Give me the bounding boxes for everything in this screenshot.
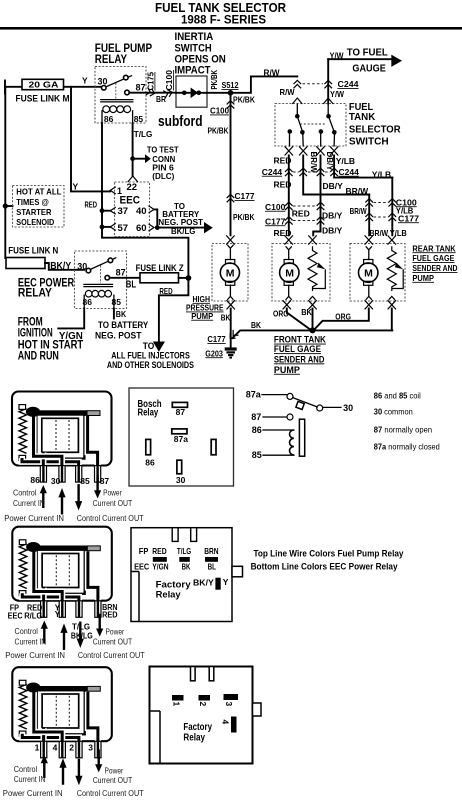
svg-text:M: M xyxy=(226,268,235,280)
svg-text:Power Current IN: Power Current IN xyxy=(5,651,65,660)
switch inertia switch box xyxy=(176,76,207,107)
wire fuse link Z out xyxy=(179,277,189,279)
wire relay 85 T/LG to EEC pin22 xyxy=(132,123,134,176)
svg-text:85: 85 xyxy=(80,476,90,486)
dashes C100/C177 right rows xyxy=(374,203,389,218)
svg-text:STARTER: STARTER xyxy=(16,207,51,217)
svg-text:EEC: EEC xyxy=(8,611,23,620)
svg-text:86: 86 xyxy=(145,457,155,467)
svg-text:C175: C175 xyxy=(147,71,156,90)
svg-text:37: 37 xyxy=(118,206,129,217)
svg-text:57: 57 xyxy=(118,223,129,234)
svg-text:M: M xyxy=(364,268,373,280)
node splice pin57 xyxy=(100,225,105,230)
switch bottom pin bowties xyxy=(285,146,293,155)
wire BK horizontal main ground bus xyxy=(232,330,392,338)
heading INERTIA SWITCH OPENS ON IMPACT xyxy=(175,31,226,76)
wire Y/GN from ignition to relay 86 xyxy=(58,309,84,329)
wire BK front module right pin to splice xyxy=(312,309,314,329)
connector C177 mark at ground junction xyxy=(227,330,238,341)
switch inertia contacts xyxy=(176,88,207,99)
svg-text:Power Current IN: Power Current IN xyxy=(4,514,64,523)
svg-text:SELECTOR: SELECTOR xyxy=(349,124,401,136)
cutaway2 captions xyxy=(5,627,145,660)
svg-text:Y: Y xyxy=(55,610,61,619)
legend relay pin functions xyxy=(374,392,440,452)
svg-text:Current OUT: Current OUT xyxy=(93,776,133,785)
svg-text:87: 87 xyxy=(251,412,261,422)
svg-text:87 normally open: 87 normally open xyxy=(374,425,432,434)
heading HIGH PRESSURE PUMP xyxy=(186,294,224,321)
svg-text:G203: G203 xyxy=(205,348,223,358)
svg-text:85: 85 xyxy=(252,450,262,460)
wire inertia out to R/W corner xyxy=(207,76,297,92)
svg-text:86: 86 xyxy=(104,114,114,124)
svg-text:PUMP: PUMP xyxy=(191,311,213,321)
svg-text:TANK: TANK xyxy=(349,111,376,123)
svg-text:Control: Control xyxy=(13,489,37,498)
svg-text:BR/W: BR/W xyxy=(309,152,318,174)
pin bowties front module bottom xyxy=(283,300,291,309)
svg-text:Y: Y xyxy=(223,577,229,587)
pin bowties front module top xyxy=(285,235,293,244)
svg-text:30: 30 xyxy=(98,76,108,86)
relay schematic symbol 87a/30/87/86/85 xyxy=(246,389,353,460)
pin bowties rear module top xyxy=(365,235,373,244)
connector C244 row marks xyxy=(285,168,293,176)
svg-text:HOT AT ALL: HOT AT ALL xyxy=(16,187,61,197)
cutaway2 wire color labels xyxy=(8,603,118,641)
front module motor xyxy=(280,246,299,299)
svg-text:DB/Y: DB/Y xyxy=(322,210,343,220)
svg-text:C100: C100 xyxy=(265,202,286,212)
svg-text:1: 1 xyxy=(172,702,182,707)
pin bowtie HP pump bottom xyxy=(227,300,235,309)
node splice pin37 xyxy=(100,208,105,213)
wire relay 86 down to EEC 37/57 and fuse link Z junction xyxy=(102,123,188,278)
svg-text:R/W: R/W xyxy=(280,87,296,97)
svg-text:86: 86 xyxy=(252,425,262,435)
svg-text:85: 85 xyxy=(112,297,122,307)
svg-text:FUEL GAGE: FUEL GAGE xyxy=(412,253,454,263)
svg-text:R/LG: R/LG xyxy=(24,611,42,620)
svg-text:RED: RED xyxy=(274,179,292,189)
svg-text:BR/W: BR/W xyxy=(346,186,370,196)
fuse FUSE LINK Z xyxy=(136,263,184,283)
svg-text:30: 30 xyxy=(176,475,186,485)
svg-text:DB/Y: DB/Y xyxy=(322,226,343,236)
svg-text:22: 22 xyxy=(127,182,138,193)
svg-text:GAUGE: GAUGE xyxy=(352,62,385,74)
rear module motor xyxy=(359,246,378,299)
label TO ALL FUEL INJECTORS AND OTHER SOLENOIDS xyxy=(107,341,194,370)
connector C244 row dashes xyxy=(293,171,330,173)
wire BR/W column xyxy=(303,156,369,195)
box HOT AT ALL TIMES @ STARTER SOLENOID xyxy=(13,186,65,228)
svg-text:RELAY: RELAY xyxy=(18,288,52,300)
svg-text:Y/W: Y/W xyxy=(330,89,345,99)
relay fuel pump relay internals xyxy=(98,75,146,124)
cutaway1 captions xyxy=(4,489,144,523)
svg-text:Current IN: Current IN xyxy=(15,637,47,646)
svg-text:86: 86 xyxy=(83,297,93,307)
pin hat EEC 22 xyxy=(128,176,138,182)
svg-text:Current OUT: Current OUT xyxy=(93,637,133,646)
svg-text:Y/W: Y/W xyxy=(330,51,344,60)
svg-text:SWITCH: SWITCH xyxy=(349,136,389,148)
module EEC box xyxy=(115,182,150,237)
node S512 splice xyxy=(228,90,234,96)
svg-text:BK: BK xyxy=(301,307,312,317)
label TO BATTERY NEG. POST BK/LG xyxy=(158,201,204,236)
svg-text:Power: Power xyxy=(106,628,125,637)
svg-text:FRONT TANK: FRONT TANK xyxy=(274,335,326,345)
wire Y/LB down right side xyxy=(391,178,393,236)
box Bosch relay pinout xyxy=(129,388,234,486)
box factory relay (bottom) xyxy=(150,667,262,764)
svg-text:Relay: Relay xyxy=(183,732,205,743)
svg-text:IMPACT: IMPACT xyxy=(175,64,211,76)
heading FRONT TANK FUEL GAGE SENDER AND PUMP xyxy=(274,335,326,375)
cutaway3 current arrows xyxy=(41,755,48,778)
svg-text:40: 40 xyxy=(136,206,147,217)
svg-text:BK: BK xyxy=(182,561,191,571)
cutaway1 current arrows xyxy=(40,485,47,508)
svg-text:C177: C177 xyxy=(398,213,419,223)
wire rear module right pin down to bus xyxy=(391,309,393,331)
svg-text:PUMP: PUMP xyxy=(412,273,434,283)
wire 87 BL to fuse link Z xyxy=(110,277,140,279)
svg-text:3: 3 xyxy=(224,702,234,707)
relay cutaway 3 (numbered pins) xyxy=(12,667,112,758)
svg-text:86: 86 xyxy=(30,475,40,485)
svg-text:Current IN: Current IN xyxy=(13,499,45,508)
svg-text:FUSE LINK M: FUSE LINK M xyxy=(16,94,70,104)
svg-text:Control Current OUT: Control Current OUT xyxy=(77,514,144,523)
svg-text:87: 87 xyxy=(176,407,186,417)
svg-text:C177: C177 xyxy=(235,191,255,201)
heading REAR TANK FUEL GAGE SENDER AND PUMP xyxy=(412,243,457,283)
svg-text:RED: RED xyxy=(274,156,292,166)
wire Y feed to fuel pump relay pin30 xyxy=(5,86,102,88)
wire Y/LB column xyxy=(334,156,392,178)
svg-text:ORG: ORG xyxy=(273,309,289,319)
module rear tank pump/sender box xyxy=(350,244,405,302)
svg-text:Relay: Relay xyxy=(156,590,182,601)
svg-text:AND OTHER SOLENOIDS: AND OTHER SOLENOIDS xyxy=(107,360,194,370)
svg-text:BK/Y: BK/Y xyxy=(50,260,71,272)
svg-text:BRN: BRN xyxy=(204,546,218,556)
svg-text:30: 30 xyxy=(343,403,353,413)
svg-text:BK: BK xyxy=(221,313,231,323)
EEC pin chevrons xyxy=(110,187,116,194)
svg-text:Y/LB: Y/LB xyxy=(372,169,391,179)
svg-text:2: 2 xyxy=(69,742,74,752)
svg-text:C177: C177 xyxy=(265,216,286,226)
wire PK/BK from S512 down to high pressure pump xyxy=(230,93,232,236)
connector C177 row dashes xyxy=(293,220,317,222)
wire Y branch down to EEC pin1 xyxy=(71,87,110,192)
arrow to all fuel injectors xyxy=(153,342,165,352)
wire DB/Y column xyxy=(313,156,320,236)
node splice RED junction xyxy=(186,275,192,281)
wire ORG front module left pin to splice xyxy=(287,309,310,330)
label EEC pins xyxy=(117,182,147,234)
svg-text:87: 87 xyxy=(136,82,146,92)
module front tank pump/sender box xyxy=(272,244,330,302)
svg-text:85: 85 xyxy=(134,114,144,124)
relay EEC power relay box xyxy=(75,251,127,309)
HP pump motor xyxy=(220,245,239,300)
connector C244 dashed link xyxy=(303,83,324,85)
svg-text:2: 2 xyxy=(198,702,208,707)
svg-text:Y/GN: Y/GN xyxy=(59,331,83,342)
node splice to test connector xyxy=(130,156,135,161)
module high pressure pump box xyxy=(212,244,248,302)
svg-text:60: 60 xyxy=(136,223,147,234)
svg-text:RED: RED xyxy=(274,228,292,238)
svg-text:PK/BK: PK/BK xyxy=(233,96,255,105)
svg-text:Power: Power xyxy=(105,766,124,775)
cutaway3 pin labels xyxy=(35,742,94,752)
connector marks on BR/W + Y/LB right columns xyxy=(365,199,373,207)
fuse 20 GA fuse link M xyxy=(16,79,70,103)
wire BR/W down right side xyxy=(368,195,370,236)
svg-text:EEC: EEC xyxy=(120,194,141,206)
wire relay 85 BK stub xyxy=(113,309,115,319)
switch mechanical link dashed xyxy=(300,123,326,125)
svg-text:1: 1 xyxy=(35,742,40,752)
switch selector pole 2 xyxy=(319,104,337,146)
svg-text:TIMES @: TIMES @ xyxy=(16,197,49,207)
svg-text:Current OUT: Current OUT xyxy=(93,499,133,508)
svg-text:T/LG: T/LG xyxy=(134,129,153,139)
cutaway3 captions xyxy=(3,765,144,798)
box factory relay (middle) xyxy=(131,528,243,622)
svg-text:Control Current OUT: Control Current OUT xyxy=(77,789,144,798)
svg-text:SENDER AND: SENDER AND xyxy=(274,354,325,364)
svg-text:RED: RED xyxy=(85,200,98,210)
svg-text:TO FUEL: TO FUEL xyxy=(347,46,389,58)
svg-text:REAR TANK: REAR TANK xyxy=(412,243,456,253)
svg-text:Top Line Wire Colors Fuel Pump: Top Line Wire Colors Fuel Pump Relay xyxy=(254,548,404,558)
pin bowtie HP pump top xyxy=(226,235,234,244)
svg-text:Factory: Factory xyxy=(183,722,212,733)
switch selector top pin hats xyxy=(292,98,302,104)
svg-text:C177: C177 xyxy=(207,334,226,344)
label FROM IGNITION HOT IN START AND RUN xyxy=(18,316,84,362)
wire to fuel gauge xyxy=(328,58,391,60)
svg-text:FP: FP xyxy=(139,546,149,556)
svg-text:C100: C100 xyxy=(165,69,174,90)
connector C175 mark xyxy=(146,88,156,97)
relay cutaway 1 (86/30/85/87) xyxy=(12,392,112,483)
wire BK/Y to EEC power relay pin 30 xyxy=(45,263,84,270)
svg-text:C244: C244 xyxy=(338,79,359,89)
svg-text:87: 87 xyxy=(100,476,110,486)
svg-text:20 GA: 20 GA xyxy=(29,79,59,89)
connector C177 mark on PK/BK xyxy=(227,194,235,202)
svg-text:DB/Y: DB/Y xyxy=(323,181,344,191)
svg-text:C244: C244 xyxy=(339,167,360,177)
svg-text:Y/GN: Y/GN xyxy=(152,561,168,571)
relay cutaway 2 (factory colors) xyxy=(12,527,112,618)
connector C177 row marks xyxy=(285,217,293,225)
connector C244 marks on R/W and Y/W xyxy=(294,80,302,88)
wire BK from HP pump to ground xyxy=(230,309,232,349)
wire stub to pin37 xyxy=(102,210,110,212)
svg-text:4: 4 xyxy=(53,742,58,752)
svg-text:BR: BR xyxy=(156,94,166,104)
svg-text:PUMP: PUMP xyxy=(274,365,300,375)
svg-text:S512: S512 xyxy=(222,80,239,90)
svg-text:87a: 87a xyxy=(246,389,262,399)
svg-text:FUSE LINK N: FUSE LINK N xyxy=(8,245,58,255)
svg-text:87a: 87a xyxy=(174,434,188,444)
svg-text:RED: RED xyxy=(152,546,166,556)
svg-text:30 common: 30 common xyxy=(374,407,413,416)
svg-text:RED: RED xyxy=(292,208,310,218)
svg-text:Y: Y xyxy=(82,76,88,86)
svg-text:Power: Power xyxy=(103,489,122,498)
svg-text:Control: Control xyxy=(14,765,38,774)
svg-text:M: M xyxy=(285,268,294,280)
svg-text:ORG: ORG xyxy=(335,311,351,321)
relay EEC power relay internals xyxy=(77,258,125,309)
connector C100 mark xyxy=(163,89,173,98)
svg-text:EEC: EEC xyxy=(134,561,149,571)
svg-text:Control Current OUT: Control Current OUT xyxy=(78,651,145,660)
svg-text:RELAY: RELAY xyxy=(95,54,128,66)
svg-text:DB/Y: DB/Y xyxy=(325,152,334,172)
svg-text:Bottom Line Colors EEC Power R: Bottom Line Colors EEC Power Relay xyxy=(251,561,398,571)
wire RED down to fuel injectors arrow xyxy=(159,278,189,342)
svg-text:FUEL GAGE: FUEL GAGE xyxy=(274,344,321,354)
wire Y/W down to selector switch xyxy=(327,59,329,103)
cutaway2 current arrows xyxy=(41,621,48,644)
svg-text:(DLC): (DLC) xyxy=(152,172,174,181)
arrow to test conn xyxy=(145,154,151,163)
node battery feed start tick xyxy=(4,81,6,94)
svg-text:BK: BK xyxy=(251,320,262,330)
svg-text:BL: BL xyxy=(126,279,137,291)
svg-text:RED: RED xyxy=(102,611,118,620)
svg-text:Y: Y xyxy=(73,182,79,192)
svg-text:T/LG: T/LG xyxy=(177,546,192,556)
svg-text:4: 4 xyxy=(221,720,231,725)
label TO TEST CONN PIN 6 (DLC) xyxy=(147,145,179,181)
svg-text:FROM: FROM xyxy=(18,316,43,328)
cutaway1 pin labels xyxy=(30,475,109,486)
svg-text:SOLENOID: SOLENOID xyxy=(16,217,54,227)
svg-text:PK/BK: PK/BK xyxy=(208,127,229,136)
fuse FUSE LINK N xyxy=(6,245,58,268)
title rule xyxy=(0,27,462,30)
switch fuel tank selector switch box xyxy=(275,104,346,147)
rear module sender resistor xyxy=(387,246,403,299)
svg-text:AND RUN: AND RUN xyxy=(18,350,59,362)
svg-text:30: 30 xyxy=(51,476,61,486)
wire relay 87 output to inertia switch xyxy=(129,92,176,94)
svg-text:IGNITION: IGNITION xyxy=(18,328,53,340)
node splice pin60 xyxy=(155,225,160,230)
svg-text:Control: Control xyxy=(15,627,39,636)
wire stub to test conn arrow xyxy=(133,158,145,160)
svg-text:86 and 85 coil: 86 and 85 coil xyxy=(374,392,421,401)
wire stub to hot box xyxy=(5,205,12,207)
svg-text:BL: BL xyxy=(208,561,216,571)
svg-text:NEG. POST: NEG. POST xyxy=(95,330,142,341)
svg-text:C244: C244 xyxy=(262,167,283,177)
svg-text:R/W: R/W xyxy=(264,67,281,77)
wire ORG rear module left pin xyxy=(315,309,369,330)
svg-text:SENDER AND: SENDER AND xyxy=(412,263,457,273)
wire stub to pin57 xyxy=(102,226,110,228)
wire RED column xyxy=(288,156,290,236)
connector C100 row dashes xyxy=(293,205,317,207)
heading FUEL TANK SELECTOR SWITCH xyxy=(349,101,401,148)
switch selector pole 1 xyxy=(288,104,305,146)
svg-text:87: 87 xyxy=(116,267,126,277)
arrow to fuel gauge xyxy=(391,55,402,67)
svg-text:PK/BK: PK/BK xyxy=(233,213,255,222)
wire left drop to fuse link N xyxy=(4,87,6,258)
svg-text:Y/LB: Y/LB xyxy=(336,156,355,166)
front module sender resistor xyxy=(308,246,325,299)
svg-text:Current IN: Current IN xyxy=(14,775,46,784)
svg-text:Y/LB: Y/LB xyxy=(390,228,407,238)
svg-text:Power Current IN: Power Current IN xyxy=(3,789,63,798)
svg-text:BK/Y: BK/Y xyxy=(193,577,214,587)
svg-text:BR/W: BR/W xyxy=(350,206,368,216)
connector C100 row marks xyxy=(285,202,293,210)
svg-text:subford: subford xyxy=(158,114,203,130)
svg-text:1988 F- SERIES: 1988 F- SERIES xyxy=(181,13,266,27)
svg-text:C100: C100 xyxy=(210,106,229,116)
node ground splice dot xyxy=(310,327,316,333)
svg-text:BK/LG: BK/LG xyxy=(171,226,196,236)
arrow to battery neg post xyxy=(204,222,213,233)
svg-text:87a normally closed: 87a normally closed xyxy=(374,442,440,451)
relay fuel pump relay box xyxy=(95,67,146,124)
svg-text:PK/BK: PK/BK xyxy=(210,70,219,90)
svg-text:Relay: Relay xyxy=(138,406,159,418)
pin bowties rear module bottom xyxy=(365,300,373,309)
svg-text:BK: BK xyxy=(116,309,127,319)
ground G203 symbol xyxy=(225,347,237,357)
svg-text:Factory: Factory xyxy=(156,579,192,590)
svg-text:3: 3 xyxy=(88,742,93,752)
node splice to hot-at-all-times xyxy=(3,203,8,208)
wire EEC 40/60 to battery neg post xyxy=(154,209,204,227)
connector C100 mark below S512 xyxy=(227,101,235,109)
